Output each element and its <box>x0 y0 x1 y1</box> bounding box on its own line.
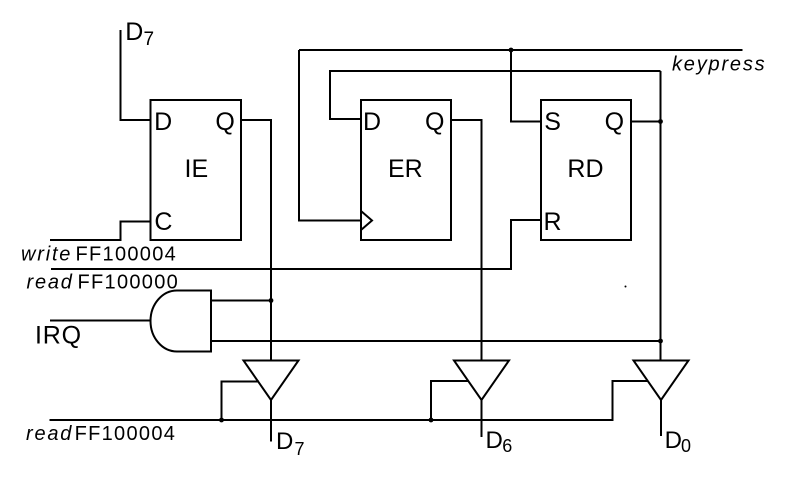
svg-text:D: D <box>125 18 143 46</box>
svg-text:Q: Q <box>425 108 444 136</box>
svg-text:D: D <box>363 108 381 136</box>
svg-text:RD: RD <box>567 155 603 183</box>
svg-text:write: write <box>21 244 72 266</box>
svg-text:IRQ: IRQ <box>35 322 82 350</box>
svg-text:C: C <box>154 208 172 236</box>
svg-text:R: R <box>544 208 562 236</box>
svg-text:FF100004: FF100004 <box>76 244 178 266</box>
svg-text:D: D <box>276 428 293 455</box>
svg-text:read: read <box>26 423 73 445</box>
svg-text:FF100000: FF100000 <box>78 272 180 294</box>
svg-text:Q: Q <box>215 108 234 136</box>
svg-text:Q: Q <box>605 108 624 136</box>
svg-text:IE: IE <box>185 155 209 183</box>
svg-text:7: 7 <box>144 29 155 50</box>
svg-text:6: 6 <box>502 436 512 456</box>
svg-text:7: 7 <box>295 439 305 459</box>
svg-text:ER: ER <box>388 155 423 183</box>
svg-text:read: read <box>27 272 74 294</box>
svg-text:D: D <box>154 108 172 136</box>
svg-text:D: D <box>665 427 682 454</box>
svg-text:0: 0 <box>681 436 691 456</box>
svg-text:D: D <box>486 427 503 454</box>
svg-text:keypress: keypress <box>672 54 766 76</box>
svg-text:FF100004: FF100004 <box>75 423 177 445</box>
svg-text:S: S <box>544 108 561 136</box>
